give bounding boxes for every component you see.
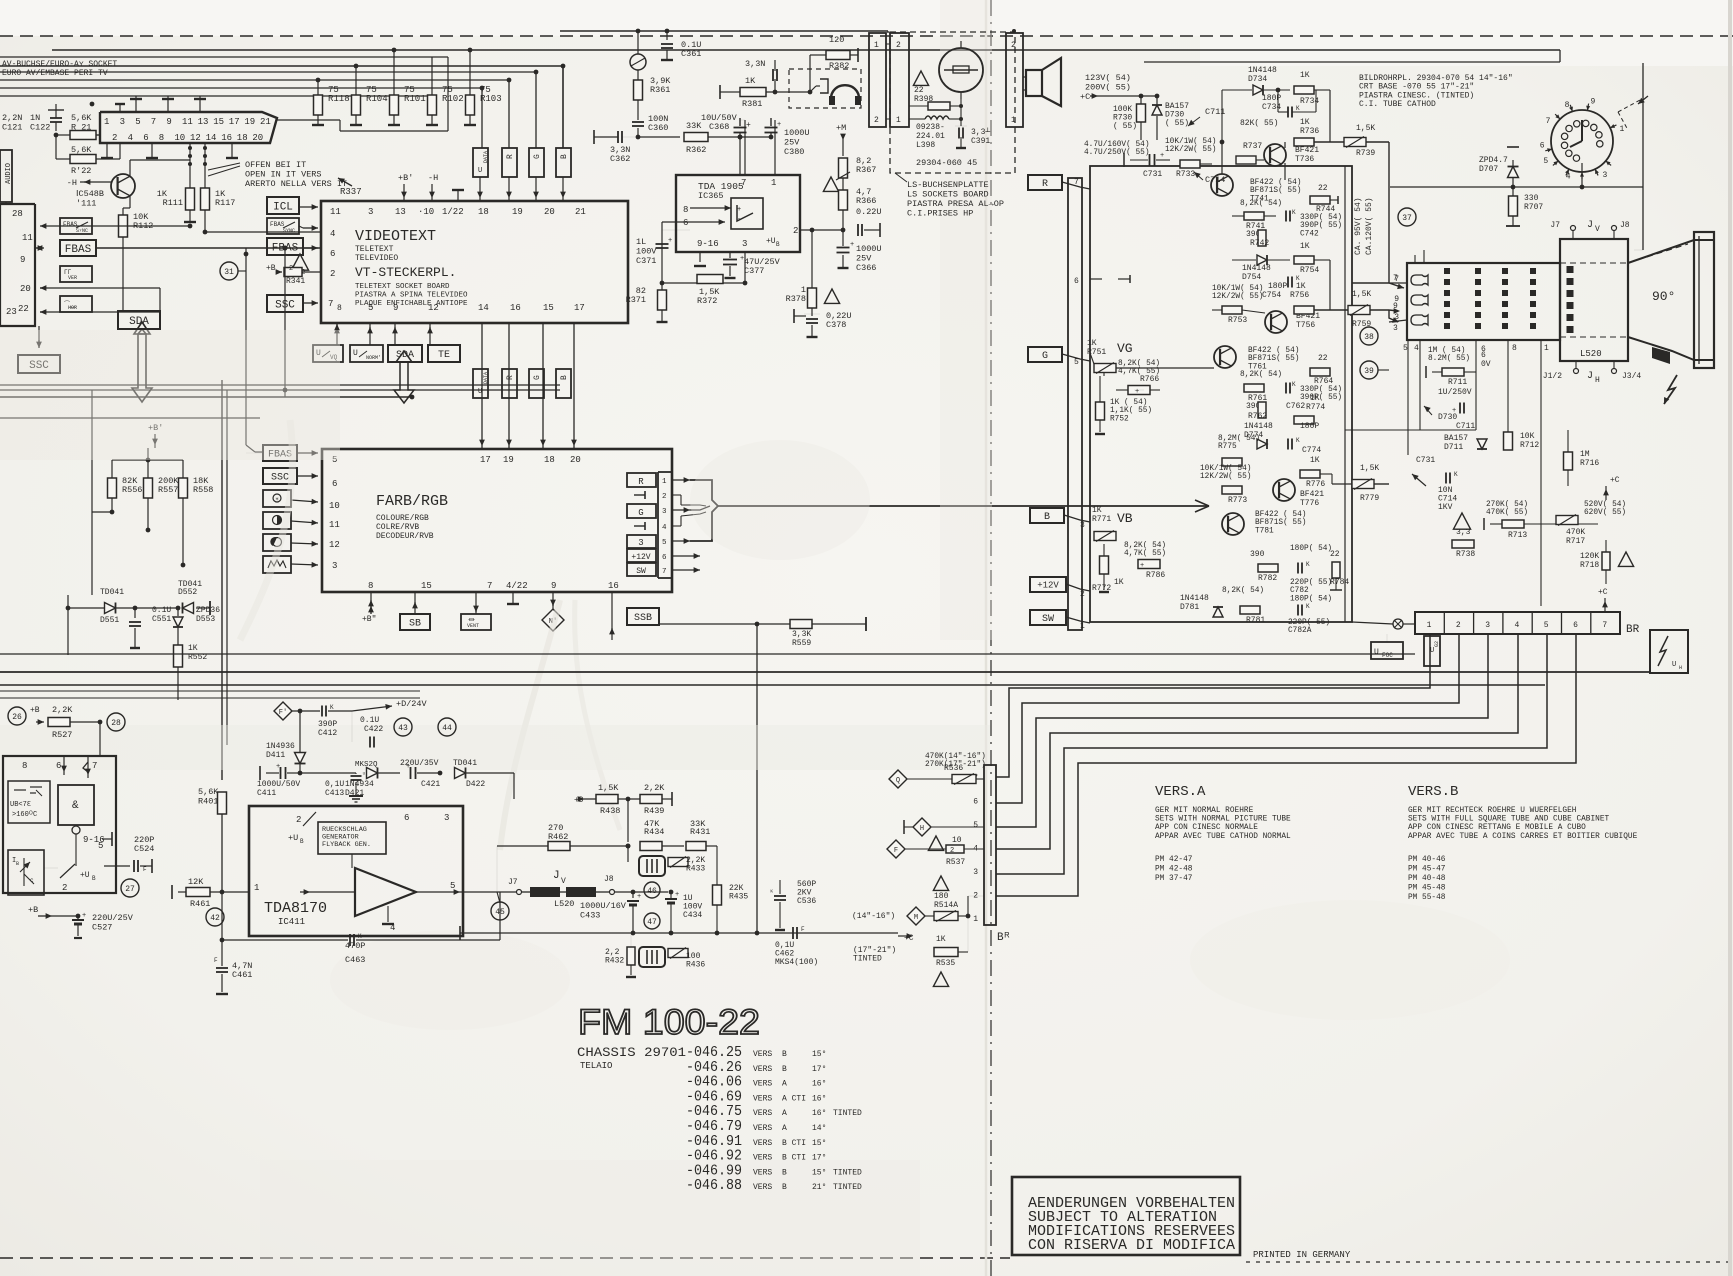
svg-text:R438: R438 xyxy=(600,806,620,816)
svg-text:+M: +M xyxy=(836,123,846,133)
BR connector strip xyxy=(1415,612,1620,634)
svg-text:15: 15 xyxy=(421,581,432,591)
svg-text:47: 47 xyxy=(647,918,657,927)
svg-text:R102: R102 xyxy=(442,94,464,104)
svg-text:R766: R766 xyxy=(1140,375,1159,384)
svg-text:R557: R557 xyxy=(158,485,178,495)
svg-text:0V: 0V xyxy=(1481,360,1491,369)
svg-text:D421: D421 xyxy=(345,789,364,798)
vertical fold dash-dot line xyxy=(990,0,992,1276)
svg-text:J: J xyxy=(1587,371,1593,382)
svg-text:U: U xyxy=(1374,648,1379,657)
svg-text:B: B xyxy=(782,1183,787,1192)
LS dashed board box xyxy=(890,32,1015,173)
aenderungen vorbehalten box xyxy=(1012,1177,1240,1255)
label box U FOC xyxy=(1371,642,1403,659)
transistor box IB IE xyxy=(8,850,44,895)
svg-text:6: 6 xyxy=(1074,277,1079,286)
svg-text:VERS: VERS xyxy=(753,1124,772,1133)
circle 27 xyxy=(121,879,139,897)
svg-text:3: 3 xyxy=(973,868,978,877)
svg-text:C378: C378 xyxy=(826,320,846,330)
svg-text:5: 5 xyxy=(368,303,373,313)
svg-text:H: H xyxy=(1679,665,1682,671)
euro av socket connector xyxy=(100,112,277,143)
svg-text:SʸNC: SʸNC xyxy=(76,228,88,234)
svg-text:28: 28 xyxy=(12,209,23,219)
svg-text:D553: D553 xyxy=(196,615,215,624)
svg-text:D711: D711 xyxy=(1444,443,1463,452)
svg-text:-: - xyxy=(737,216,741,224)
svg-text:470K: 470K xyxy=(1566,528,1585,537)
svg-text:BF422 ( 54): BF422 ( 54) xyxy=(1255,511,1306,519)
wire top right frame xyxy=(1144,61,1560,63)
resistor R398 body xyxy=(928,102,950,110)
opamp inside tda1905 xyxy=(731,198,763,229)
svg-text:1: 1 xyxy=(1544,344,1549,353)
svg-text:1U/250V: 1U/250V xyxy=(1438,388,1472,397)
svg-text:C361: C361 xyxy=(681,49,701,59)
svg-text:1K: 1K xyxy=(1300,118,1310,127)
svg-text:3: 3 xyxy=(742,239,747,249)
and gate box xyxy=(58,785,94,825)
svg-text:VG: VG xyxy=(1117,341,1133,356)
svg-text:VT-STECKERPL.: VT-STECKERPL. xyxy=(355,265,456,280)
svg-text:123V( 54): 123V( 54) xyxy=(1085,73,1131,83)
label box FBAS farb xyxy=(263,445,297,461)
resistor R372 1.5K xyxy=(697,275,723,284)
svg-text:APPAR AVEC TUBE A COINS CARRE: APPAR AVEC TUBE A COINS CARRES ET BOITIE… xyxy=(1408,833,1638,841)
wire drops to RGB label boxes xyxy=(562,66,564,148)
rueckschlag generator box xyxy=(318,822,386,854)
svg-text:VERS: VERS xyxy=(753,1080,772,1089)
speaker connector right xyxy=(1006,33,1023,127)
svg-text:B: B xyxy=(782,1050,787,1059)
resistor R378 1 xyxy=(811,230,813,288)
warning 180 R514A xyxy=(933,876,948,890)
svg-text:SYNC: SYNC xyxy=(283,228,295,234)
svg-text:1K: 1K xyxy=(1310,394,1320,403)
svg-text:COLRE/RVB: COLRE/RVB xyxy=(376,523,419,532)
svg-text:IC411: IC411 xyxy=(278,917,305,927)
icon box brightness xyxy=(263,490,291,507)
svg-text:12K/2W( 55): 12K/2W( 55) xyxy=(1212,293,1263,301)
svg-text:+: + xyxy=(777,121,781,129)
svg-text:+: + xyxy=(406,763,410,771)
svg-text:1K: 1K xyxy=(936,935,946,944)
wire fbas junction down xyxy=(245,254,247,445)
svg-text:15°: 15° xyxy=(812,1050,826,1059)
svg-text:SW: SW xyxy=(636,567,646,576)
svg-text:8,2K( 54): 8,2K( 54) xyxy=(1124,542,1166,550)
resistor R117 1K xyxy=(201,188,210,210)
svg-text:EURO AV/EMBASE PERI TV: EURO AV/EMBASE PERI TV xyxy=(2,69,108,78)
svg-text:10: 10 xyxy=(174,133,185,143)
svg-text:1K: 1K xyxy=(1310,456,1320,465)
svg-text:R739: R739 xyxy=(1356,149,1375,158)
vertical wires right of board xyxy=(1344,166,1346,622)
svg-text:44: 44 xyxy=(442,724,452,733)
svg-text:37: 37 xyxy=(1402,214,1412,223)
svg-text:82K( 55): 82K( 55) xyxy=(1240,119,1278,128)
svg-text:V: V xyxy=(1595,225,1600,234)
trimmer R717 470K xyxy=(1556,516,1578,525)
svg-text:R431: R431 xyxy=(690,827,710,837)
svg-text:R434: R434 xyxy=(644,827,664,837)
resistor R362 33K xyxy=(684,133,708,142)
svg-text:R104: R104 xyxy=(366,94,388,104)
svg-text:R559: R559 xyxy=(792,639,811,648)
svg-text:22: 22 xyxy=(1318,184,1328,193)
svg-text:F: F xyxy=(894,847,898,855)
svg-text:3,3N: 3,3N xyxy=(745,59,765,69)
svg-text:18: 18 xyxy=(478,207,489,217)
svg-text:3: 3 xyxy=(1080,521,1085,530)
capacitor C551 0.1U xyxy=(134,608,136,618)
svg-text:R401: R401 xyxy=(198,797,218,807)
svg-text:7: 7 xyxy=(487,581,492,591)
svg-text:C421: C421 xyxy=(421,780,440,789)
svg-text:C731: C731 xyxy=(1416,456,1435,465)
svg-text:+: + xyxy=(675,891,679,899)
svg-text:BR: BR xyxy=(1626,624,1640,636)
svg-text:220P( 55): 220P( 55) xyxy=(1290,579,1332,587)
svg-text:C463: C463 xyxy=(345,955,365,965)
svg-text:2: 2 xyxy=(1080,590,1085,599)
svg-text:2: 2 xyxy=(874,116,879,125)
farb/rgb decoder box xyxy=(322,449,672,592)
svg-text:G2: G2 xyxy=(1434,641,1440,647)
label box R lower xyxy=(502,369,517,398)
svg-text:6: 6 xyxy=(1573,621,1578,630)
label box G inner xyxy=(627,504,656,518)
label box +12V inner xyxy=(627,549,656,562)
resistor R103 75 xyxy=(469,50,471,95)
icon box saturation xyxy=(263,534,291,551)
svg-text:C527: C527 xyxy=(92,923,112,933)
svg-text:180P( 54): 180P( 54) xyxy=(1290,545,1332,553)
stub pin2 xyxy=(634,494,645,496)
circle 37 xyxy=(1398,208,1416,226)
label box SW flag xyxy=(1030,610,1066,625)
svg-text:3: 3 xyxy=(1485,621,1490,630)
svg-text:APPAR AVEC TUBE CATHOD NORMA: APPAR AVEC TUBE CATHOD NORMAL xyxy=(1155,833,1291,841)
tube black wedge xyxy=(1652,347,1670,364)
speaker connector pair 1 xyxy=(869,33,886,127)
svg-text:U: U xyxy=(478,167,482,175)
svg-text:5: 5 xyxy=(98,841,103,851)
scan smudge curves xyxy=(500,600,560,850)
stub 4/22 gnd xyxy=(512,592,514,604)
svg-text:6: 6 xyxy=(973,798,978,807)
wire tda8170 bottom feedback xyxy=(221,939,223,941)
svg-text:MKS4(100): MKS4(100) xyxy=(775,958,818,967)
svg-text:3: 3 xyxy=(638,538,643,548)
svg-text:1: 1 xyxy=(896,116,901,125)
svg-text:PM 37-47: PM 37-47 xyxy=(1155,875,1193,883)
svg-text:+12V: +12V xyxy=(631,553,650,562)
svg-text:-046.88: -046.88 xyxy=(686,1177,742,1194)
wire fbas row xyxy=(36,247,40,249)
svg-text:BF422 ( 54): BF422 ( 54) xyxy=(1248,347,1299,355)
svg-text:H: H xyxy=(920,825,924,833)
svg-text:VERS: VERS xyxy=(753,1109,772,1118)
resistor R752 1K xyxy=(1099,376,1101,402)
svg-text:R461: R461 xyxy=(190,899,210,909)
svg-text:3: 3 xyxy=(368,207,373,217)
svg-text:FM 100-22: FM 100-22 xyxy=(578,1003,760,1042)
svg-text:B: B xyxy=(782,1065,787,1074)
svg-text:1,5K: 1,5K xyxy=(1360,464,1379,473)
svg-text:BF422 ( 54): BF422 ( 54) xyxy=(1250,179,1301,187)
svg-text:19: 19 xyxy=(244,117,255,127)
svg-text:1K: 1K xyxy=(1296,282,1306,291)
wire right vert x1643 lower xyxy=(1642,187,1644,229)
svg-text:C366: C366 xyxy=(856,263,876,273)
svg-text:26: 26 xyxy=(12,713,22,722)
svg-text:7: 7 xyxy=(151,117,156,127)
svg-text:GER MIT NORMAL ROEHRE: GER MIT NORMAL ROEHRE xyxy=(1155,807,1254,815)
svg-text:B: B xyxy=(1044,512,1050,523)
svg-text:14°: 14° xyxy=(812,1124,826,1133)
svg-text:1,5K: 1,5K xyxy=(598,783,619,793)
icon box FBAS/SYNC right xyxy=(267,218,299,234)
svg-text:180P: 180P xyxy=(1268,282,1287,291)
svg-text:4,7K( 55): 4,7K( 55) xyxy=(1124,550,1166,558)
resistor R556 82K xyxy=(111,460,113,478)
svg-text:J: J xyxy=(553,870,560,882)
svg-text:BF871S( 55): BF871S( 55) xyxy=(1250,187,1301,195)
svg-text:7: 7 xyxy=(92,761,97,771)
svg-text:16°: 16° xyxy=(812,1094,826,1103)
svg-text:17: 17 xyxy=(480,455,491,465)
svg-text:J8: J8 xyxy=(1620,221,1630,230)
warning 3.3 R738 xyxy=(1453,513,1470,529)
capacitor C366 1000U 25V xyxy=(842,230,844,246)
resistor R367 8.2 xyxy=(842,136,844,156)
svg-text:1: 1 xyxy=(874,41,879,50)
svg-text:6: 6 xyxy=(332,479,337,489)
svg-text:R753: R753 xyxy=(1228,316,1247,325)
svg-text:J3/4: J3/4 xyxy=(1622,372,1641,381)
crt base socket circle xyxy=(1551,110,1613,172)
circle 42 xyxy=(206,908,224,926)
wire top bus y88 xyxy=(0,87,482,89)
svg-text:2: 2 xyxy=(1456,621,1461,630)
svg-text:+B': +B' xyxy=(398,173,413,183)
wire top bus y66 xyxy=(0,65,563,67)
svg-text:VIDEOTEXT: VIDEOTEXT xyxy=(355,228,436,245)
wire R112 bus xyxy=(122,296,124,311)
svg-text:R′22: R′22 xyxy=(71,166,91,176)
capacitor C714 10N 1KV xyxy=(1445,473,1447,484)
svg-text:T781: T781 xyxy=(1255,527,1274,535)
svg-text:8: 8 xyxy=(1565,101,1570,110)
svg-text:U: U xyxy=(353,349,358,358)
connector J8 yoke2 xyxy=(610,890,615,895)
svg-text:1: 1 xyxy=(973,915,978,924)
svg-text:R558: R558 xyxy=(193,485,213,495)
svg-text:( 55): ( 55) xyxy=(1113,122,1137,131)
svg-text:1K: 1K xyxy=(1092,506,1102,515)
svg-text:+: + xyxy=(850,241,854,249)
svg-text:VB: VB xyxy=(1117,511,1133,526)
label box SSC right xyxy=(267,295,303,312)
svg-text:+U: +U xyxy=(288,833,298,843)
svg-text:5: 5 xyxy=(1543,157,1548,166)
wire 6 to c371 xyxy=(662,221,690,223)
warning triangle 12 xyxy=(291,254,308,270)
label box G lower xyxy=(529,369,544,398)
wheel icon R433 xyxy=(639,856,665,876)
svg-text:22: 22 xyxy=(18,304,29,314)
svg-text:2: 2 xyxy=(950,847,954,855)
svg-text:·10: ·10 xyxy=(418,207,434,217)
svg-text:D730: D730 xyxy=(1438,413,1457,422)
svg-text:9: 9 xyxy=(166,117,171,127)
circle 44 xyxy=(438,718,456,736)
svg-text:3: 3 xyxy=(662,508,667,516)
label box +12V flag xyxy=(1030,577,1066,592)
trimmer VG xyxy=(1094,364,1116,373)
svg-text:R713: R713 xyxy=(1508,531,1527,540)
svg-text:10K/1W( 54): 10K/1W( 54) xyxy=(1165,138,1216,146)
svg-text:R771: R771 xyxy=(1092,515,1111,524)
capacitor C380 1000U 25V xyxy=(770,118,772,126)
svg-text:22: 22 xyxy=(1330,550,1340,559)
staircase wires BR to lower connector xyxy=(996,634,1430,777)
svg-text:BF421: BF421 xyxy=(1295,146,1319,155)
svg-text:C422: C422 xyxy=(364,725,383,734)
svg-text:C461: C461 xyxy=(232,970,252,980)
svg-text:25V: 25V xyxy=(784,138,800,148)
svg-text:6: 6 xyxy=(404,813,409,823)
resistor R707 330 xyxy=(1509,196,1518,216)
svg-text:31: 31 xyxy=(224,268,234,277)
wire ssb right + resistor R559 3.3K xyxy=(659,623,757,625)
svg-text:J7: J7 xyxy=(508,878,518,887)
label box SB xyxy=(400,614,430,630)
svg-text:B: B xyxy=(560,375,569,380)
label box U NORM xyxy=(350,345,383,362)
svg-text:CHASSIS 29701: CHASSIS 29701 xyxy=(577,1045,686,1060)
svg-text:1N4148: 1N4148 xyxy=(1180,594,1209,603)
svg-text:+C: +C xyxy=(1080,92,1090,102)
wire SDA2 bus down xyxy=(403,397,405,403)
resistor R772 1K xyxy=(1103,544,1105,556)
svg-text:5: 5 xyxy=(135,117,140,127)
svg-text:R744: R744 xyxy=(1316,205,1335,214)
svg-text:0.1U: 0.1U xyxy=(360,716,379,725)
capacitor C731 xyxy=(1149,154,1151,166)
wire right frame to tube xyxy=(1634,249,1643,251)
svg-text:C411: C411 xyxy=(257,789,276,798)
svg-text:R773: R773 xyxy=(1228,496,1247,505)
label box U VQ xyxy=(313,345,343,362)
svg-text:T756: T756 xyxy=(1296,321,1315,330)
svg-text:C.I. TUBE CATHOD: C.I. TUBE CATHOD xyxy=(1359,100,1436,109)
svg-text:45: 45 xyxy=(495,908,505,917)
svg-text:APP CON CINESC NORMALE: APP CON CINESC NORMALE xyxy=(1155,824,1258,832)
svg-text:TINTED: TINTED xyxy=(833,1183,862,1192)
headphone symbol xyxy=(831,85,859,103)
svg-text:K: K xyxy=(1292,381,1296,388)
svg-text:8,2K( 54): 8,2K( 54) xyxy=(1118,360,1160,368)
svg-text:R381: R381 xyxy=(742,99,762,109)
svg-text:15: 15 xyxy=(543,303,554,313)
svg-text:+B: +B xyxy=(30,706,40,715)
svg-text:NORM′: NORM′ xyxy=(366,355,381,361)
wires from videotext bottom pins to boxes xyxy=(336,323,338,345)
svg-text:OFFEN BEI IT: OFFEN BEI IT xyxy=(245,160,306,170)
svg-text:F: F xyxy=(801,926,805,933)
svg-text:22: 22 xyxy=(914,86,924,95)
svg-text:5,6K: 5,6K xyxy=(198,787,219,797)
svg-text:8: 8 xyxy=(683,205,688,215)
svg-text:R784: R784 xyxy=(1330,578,1349,587)
svg-text:1K ( 54): 1K ( 54) xyxy=(1110,399,1147,407)
svg-text:270K( 54): 270K( 54) xyxy=(1486,501,1528,509)
svg-text:13: 13 xyxy=(198,117,209,127)
svg-text:VENT: VENT xyxy=(467,623,479,629)
transistor T781 BF422 xyxy=(1222,513,1244,535)
svg-text:R361: R361 xyxy=(650,85,670,95)
svg-text:2: 2 xyxy=(62,883,67,893)
svg-text:20: 20 xyxy=(570,455,581,465)
wire rgb merged line right xyxy=(718,505,1209,507)
label box U G2 xyxy=(1424,636,1440,666)
svg-text:U: U xyxy=(1672,661,1676,669)
lower 7pin connector strip xyxy=(984,765,996,925)
svg-text:VERS: VERS xyxy=(753,1094,772,1103)
svg-text:TDA8170: TDA8170 xyxy=(264,900,327,917)
svg-text:R372: R372 xyxy=(697,296,717,306)
svg-text:22: 22 xyxy=(1318,354,1328,363)
resistor R361 3.9K xyxy=(637,70,639,80)
stub pin 18 xyxy=(457,190,459,201)
svg-text:1N4934: 1N4934 xyxy=(345,780,374,789)
svg-text:D734: D734 xyxy=(1248,75,1267,84)
svg-text:C121: C121 xyxy=(2,123,22,133)
svg-text:CRT BASE -070 55 17″-21: CRT BASE -070 55 17″-21″ xyxy=(1359,83,1474,92)
label box VENT xyxy=(461,614,491,630)
svg-text:+D/24V: +D/24V xyxy=(396,699,428,709)
svg-text:TINTED: TINTED xyxy=(833,1109,862,1118)
wire bus y685 xyxy=(0,684,1545,686)
svg-text:1KV: 1KV xyxy=(1438,503,1453,512)
wire socket pin2 left xyxy=(96,134,100,136)
svg-text:29304-060 45: 29304-060 45 xyxy=(916,158,977,168)
svg-text:220P( 55): 220P( 55) xyxy=(1288,619,1330,627)
svg-text:2: 2 xyxy=(1011,41,1016,50)
svg-text:FOC: FOC xyxy=(1382,652,1393,659)
svg-text:17: 17 xyxy=(229,117,240,127)
svg-text:VERS: VERS xyxy=(753,1050,772,1059)
svg-text:R737: R737 xyxy=(1243,142,1262,151)
trimmer VB xyxy=(1094,532,1116,541)
svg-text:7: 7 xyxy=(741,178,746,188)
svg-text:D551: D551 xyxy=(100,616,119,625)
icon box VER xyxy=(60,266,92,282)
tube dashed inner lines xyxy=(1560,262,1628,264)
svg-text:220U/25V: 220U/25V xyxy=(92,913,134,923)
svg-text:DECODEUR/RVB: DECODEUR/RVB xyxy=(376,532,434,541)
svg-text:SETS WITH NORMAL PICTURE TUBE: SETS WITH NORMAL PICTURE TUBE xyxy=(1155,816,1291,824)
svg-text:1/22: 1/22 xyxy=(442,207,464,217)
svg-text:TD041: TD041 xyxy=(453,759,477,768)
wires pins 12 14 down with junction dots xyxy=(189,143,191,188)
rgb driver board outline xyxy=(1090,166,1352,622)
